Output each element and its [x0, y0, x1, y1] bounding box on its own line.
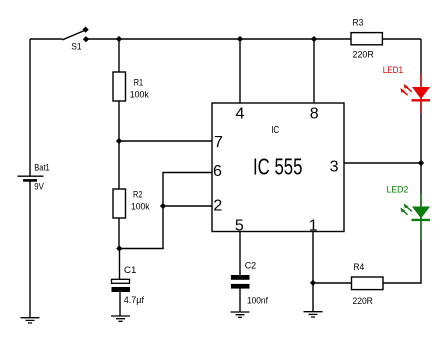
svg-text:100k: 100k: [131, 201, 150, 212]
svg-text:IC 555: IC 555: [253, 154, 303, 180]
svg-text:R3: R3: [353, 18, 364, 29]
svg-text:6: 6: [213, 163, 222, 180]
svg-text:Bat1: Bat1: [34, 163, 49, 174]
svg-text:8: 8: [310, 106, 319, 123]
svg-text:S1: S1: [71, 42, 81, 53]
svg-text:IC: IC: [271, 125, 279, 136]
svg-text:5: 5: [235, 217, 244, 234]
svg-text:R1: R1: [134, 77, 143, 88]
svg-text:2: 2: [213, 198, 222, 215]
svg-text:C2: C2: [245, 261, 257, 272]
svg-text:100nf: 100nf: [247, 295, 268, 306]
svg-text:LED2: LED2: [387, 184, 409, 195]
svg-text:220R: 220R: [353, 296, 373, 307]
svg-text:4: 4: [235, 106, 244, 123]
svg-text:1: 1: [309, 217, 318, 234]
svg-text:R2: R2: [133, 190, 143, 201]
svg-text:C1: C1: [124, 265, 137, 276]
svg-text:3: 3: [330, 158, 339, 175]
svg-text:LED1: LED1: [383, 65, 403, 76]
svg-text:7: 7: [214, 134, 223, 151]
svg-text:R4: R4: [353, 262, 364, 273]
svg-text:4.7µf: 4.7µf: [124, 295, 145, 306]
svg-text:100k: 100k: [130, 89, 149, 100]
svg-text:220R: 220R: [353, 50, 374, 61]
svg-text:9V: 9V: [34, 181, 44, 192]
